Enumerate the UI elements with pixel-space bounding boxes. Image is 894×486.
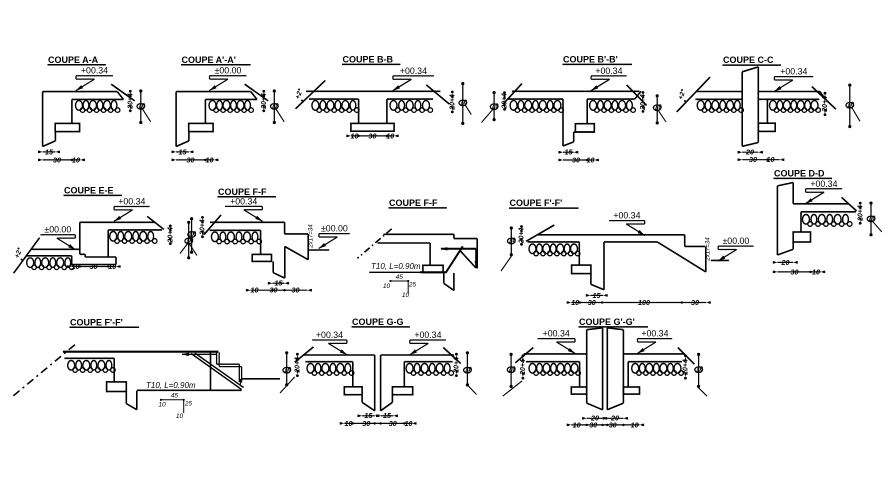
- edge vertical: [210, 352, 212, 389]
- bent bar diagonal double: [191, 354, 242, 390]
- svg-text:±00.00: ±00.00: [321, 224, 348, 234]
- svg-text:20+4: 20+4: [450, 94, 457, 111]
- svg-text:30: 30: [369, 131, 377, 140]
- left dim 20+4: [503, 91, 506, 94]
- dim 40: [849, 85, 851, 127]
- dim 40: [273, 91, 275, 123]
- svg-text:COUPE D-D: COUPE D-D: [774, 169, 825, 179]
- svg-text:30: 30: [187, 155, 195, 164]
- landing line: [711, 259, 729, 261]
- hourdis blocks right: [632, 364, 639, 374]
- wall outer face: [42, 92, 44, 147]
- slab end cut right: [635, 91, 641, 99]
- left dim 40: [510, 354, 512, 386]
- break line right: [147, 216, 164, 229]
- svg-text:10: 10: [383, 283, 391, 290]
- svg-text:10: 10: [571, 298, 579, 307]
- dimension 10 30 10: [351, 135, 394, 137]
- slab bottom right: [628, 361, 682, 363]
- svg-text:+00.34: +00.34: [400, 66, 427, 76]
- svg-text:COUPE B-B: COUPE B-B: [343, 55, 394, 65]
- right beam: [392, 387, 412, 395]
- right dim 40: [466, 353, 468, 385]
- svg-text:10: 10: [108, 262, 116, 271]
- slab top right: [758, 91, 820, 93]
- wall bottom cut: [176, 141, 189, 147]
- break line right: [678, 348, 695, 365]
- stem left face: [125, 392, 127, 404]
- svg-text:±00.00: ±00.00: [722, 236, 749, 246]
- svg-text:30: 30: [609, 420, 617, 429]
- right stem: [391, 395, 393, 403]
- svg-text:+00.34: +00.34: [595, 66, 622, 76]
- svg-text:10: 10: [405, 419, 413, 428]
- slab bottom right: [758, 98, 819, 100]
- slab bottom left: [508, 98, 563, 100]
- slab bottom line: [378, 242, 431, 244]
- slab top line: [512, 90, 639, 92]
- svg-text:20: 20: [781, 258, 790, 267]
- svg-text:+00.34: +00.34: [414, 330, 441, 340]
- slab top left: [524, 353, 587, 355]
- svg-text:10: 10: [176, 413, 184, 420]
- svg-text:30: 30: [362, 419, 370, 428]
- svg-text:30: 30: [270, 286, 278, 295]
- step ledge: [285, 233, 309, 235]
- landing line: [308, 249, 329, 251]
- wall right face: [757, 67, 759, 143]
- svg-text:T10, L=0.90m: T10, L=0.90m: [371, 262, 421, 271]
- break line left: [204, 215, 221, 234]
- hourdis blocks: [68, 361, 75, 371]
- slab top line: [306, 90, 440, 92]
- svg-text:20+4: 20+4: [857, 205, 864, 222]
- svg-text:20+4: 20+4: [519, 227, 526, 244]
- svg-text:+00.34: +00.34: [118, 197, 145, 207]
- dim 20+4: [169, 225, 172, 228]
- dimension 15: [43, 151, 56, 153]
- hourdis blocks: [803, 215, 810, 225]
- slab top left: [697, 91, 742, 93]
- hourdis blocks right: [390, 101, 397, 111]
- svg-text:COUPE G'-G': COUPE G'-G': [579, 317, 635, 327]
- slab top left: [303, 354, 375, 356]
- dimension 15 left: [362, 415, 375, 417]
- slab top right: [381, 354, 454, 356]
- svg-text:45: 45: [171, 393, 179, 400]
- dimension 20: [742, 151, 758, 153]
- right dim 40: [698, 354, 700, 386]
- joist support line: [260, 230, 262, 254]
- slab bottom right: [387, 98, 433, 100]
- svg-text:10: 10: [72, 262, 80, 271]
- svg-text:20+4: 20+4: [454, 357, 461, 374]
- slab edge: [284, 222, 286, 234]
- break line left: [14, 238, 40, 274]
- left dim 20+4: [520, 225, 523, 228]
- right wall: [606, 328, 608, 410]
- dim 20+4: [859, 202, 862, 205]
- slab top line: [383, 233, 454, 235]
- step ledge: [80, 253, 85, 255]
- svg-text:10: 10: [351, 131, 359, 140]
- break line: [245, 84, 269, 101]
- svg-text:30: 30: [691, 298, 699, 307]
- slab top line thick: [63, 351, 219, 353]
- svg-text:10: 10: [402, 292, 410, 299]
- svg-text:20+4: 20+4: [200, 219, 207, 236]
- bar step horizontals: [217, 363, 240, 365]
- wall bottom cut: [742, 143, 758, 147]
- hourdis blocks right: [770, 101, 777, 111]
- dimension 30 10: [563, 159, 594, 161]
- dimension 10 30 10: [72, 266, 116, 268]
- hourdis blocks left: [529, 364, 536, 374]
- beam: [758, 123, 775, 131]
- svg-text:+00.34: +00.34: [810, 179, 837, 189]
- bar down arrow: [239, 379, 242, 386]
- dimension 10 30 30 10: [571, 424, 639, 426]
- step riser: [307, 234, 309, 260]
- stem bottom cut: [563, 142, 574, 146]
- joist support line: [113, 358, 115, 382]
- slab bottom left: [526, 361, 580, 363]
- stem left face: [443, 273, 445, 284]
- svg-text:30: 30: [572, 155, 580, 164]
- svg-text:20+4: 20+4: [640, 94, 647, 111]
- svg-text:20+4: 20+4: [261, 93, 268, 110]
- dimension 20 right: [607, 417, 623, 419]
- upper joist support line: [107, 230, 109, 257]
- right dim 20+4: [642, 91, 645, 94]
- svg-text:COUPE A-A: COUPE A-A: [48, 55, 99, 65]
- svg-text:COUPE G-G: COUPE G-G: [352, 317, 404, 327]
- svg-text:25: 25: [184, 401, 192, 408]
- break line right: [426, 85, 449, 104]
- break line left: [526, 225, 554, 241]
- hourdis blocks: [529, 244, 536, 254]
- beam: [423, 265, 443, 272]
- svg-text:10: 10: [631, 420, 639, 429]
- stem right face: [453, 273, 455, 291]
- joist support line: [800, 212, 802, 232]
- footing: [351, 123, 394, 131]
- slab top line: [176, 91, 251, 93]
- svg-text:±00.00: ±00.00: [215, 66, 242, 76]
- rebar T10 bent bar: [420, 246, 463, 272]
- lower level line: [369, 271, 446, 273]
- left dim 40: [510, 228, 512, 255]
- dimension 10 30 30: [251, 289, 308, 291]
- svg-text:10: 10: [812, 267, 820, 276]
- dimension 15: [176, 151, 189, 153]
- dimension 20: [777, 261, 793, 263]
- slab bottom line: [801, 211, 856, 213]
- ledge right: [685, 245, 705, 247]
- bar step verticals: [216, 352, 218, 364]
- lower hourdis blocks: [27, 258, 34, 268]
- svg-text:45: 45: [396, 274, 404, 281]
- beam: [572, 265, 591, 274]
- right edge: [476, 239, 478, 269]
- left dim 40: [286, 353, 288, 385]
- hourdis blocks left: [697, 101, 704, 111]
- left stem: [361, 395, 363, 403]
- break line left: [677, 77, 710, 112]
- svg-text:10: 10: [587, 155, 595, 164]
- wall inner face: [188, 132, 190, 141]
- svg-text:20+4: 20+4: [520, 359, 527, 376]
- dimension 30 10: [742, 159, 780, 161]
- beam: [71, 256, 73, 265]
- dim 20+4: [451, 91, 454, 94]
- left beam: [344, 387, 362, 395]
- dimension 15: [272, 282, 284, 284]
- hourdis blocks left: [312, 101, 319, 111]
- break line right: [443, 348, 460, 364]
- dim 40: [191, 219, 193, 253]
- right dim 20+4: [684, 354, 687, 357]
- dim 40: [462, 84, 464, 124]
- hourdis blocks right: [590, 101, 597, 111]
- break line right: [812, 87, 836, 110]
- left joist support: [579, 362, 581, 387]
- slab edge right: [684, 235, 686, 247]
- slab top line: [538, 234, 685, 236]
- dimension 15: [590, 294, 603, 296]
- svg-text:10: 10: [206, 155, 214, 164]
- svg-text:COUPE F-F: COUPE F-F: [218, 187, 267, 197]
- break line left: [296, 80, 326, 108]
- dimension 10 30 30 10: [344, 422, 412, 424]
- slab bottom left: [309, 98, 359, 100]
- slab edge: [453, 234, 455, 238]
- slab bottom line: [210, 229, 261, 231]
- dim 40: [140, 91, 142, 123]
- wall top cut: [777, 183, 793, 186]
- slab top line: [210, 221, 285, 223]
- lower level line: [137, 389, 242, 391]
- svg-text:30: 30: [588, 298, 596, 307]
- svg-text:COUPE B'-B': COUPE B'-B': [563, 55, 618, 65]
- svg-text:T10, L=0.90m: T10, L=0.90m: [146, 381, 196, 390]
- step face: [79, 222, 81, 254]
- stem left face: [562, 99, 564, 146]
- dim 20+4: [129, 90, 132, 93]
- svg-text:10: 10: [767, 155, 775, 164]
- slab bottom right: [604, 241, 657, 243]
- break line right: [842, 197, 857, 211]
- break line right: [627, 85, 647, 106]
- svg-text:2x17=34: 2x17=34: [309, 224, 315, 249]
- wall bottom cut: [777, 249, 793, 255]
- svg-text:10: 10: [345, 419, 353, 428]
- beam: [55, 123, 79, 131]
- slab bottom right: [587, 98, 635, 100]
- break line dashed: [13, 345, 75, 396]
- stem left face: [272, 261, 274, 272]
- break line dashed: [357, 229, 391, 258]
- wall inner face upper: [792, 183, 794, 204]
- ledge: [454, 238, 477, 240]
- wall outer face: [175, 92, 177, 147]
- wall inner face: [54, 132, 56, 141]
- joist support line: [586, 99, 588, 124]
- svg-text:COUPE A'-A': COUPE A'-A': [182, 55, 236, 65]
- beam stem left face: [358, 99, 360, 123]
- svg-text:+00.34: +00.34: [780, 67, 807, 77]
- hourdis blocks: [209, 101, 216, 111]
- svg-text:+00.34: +00.34: [230, 196, 257, 206]
- dimension 30 10: [777, 271, 820, 273]
- wall left face: [741, 72, 743, 147]
- ramp face: [705, 246, 707, 272]
- ramp soffit: [657, 242, 706, 272]
- landing line: [242, 378, 280, 380]
- wall bottom cut: [43, 141, 56, 147]
- dim 40: [870, 203, 872, 235]
- bar step right verticals: [238, 364, 240, 382]
- svg-text:COUPE F'-F': COUPE F'-F': [510, 198, 563, 208]
- beam: [252, 254, 271, 261]
- upper slab bottom: [108, 229, 162, 231]
- slab top line: [793, 203, 849, 205]
- slab top right: [623, 353, 684, 355]
- svg-text:+00.34: +00.34: [543, 329, 570, 339]
- svg-text:COUPE F'-F': COUPE F'-F': [70, 317, 123, 327]
- hourdis blocks left: [510, 101, 517, 111]
- svg-text:25: 25: [408, 282, 416, 289]
- stem right face: [284, 247, 286, 279]
- hourdis blocks right: [406, 364, 413, 374]
- svg-text:+00.34: +00.34: [81, 66, 108, 76]
- dimension 10 30 100 30: [571, 302, 706, 304]
- beam: [575, 124, 594, 132]
- slab bottom right: [404, 361, 452, 363]
- beam: [793, 232, 810, 242]
- stem right face: [136, 391, 138, 410]
- dimension 30 10: [176, 159, 214, 161]
- slab top line: [43, 91, 118, 93]
- slab bottom left: [305, 361, 352, 363]
- beam stem right face: [386, 99, 388, 123]
- wall inner face lower: [792, 242, 794, 249]
- dimension 15 right: [381, 415, 394, 417]
- svg-text:30: 30: [749, 155, 757, 164]
- right joist support: [627, 362, 629, 387]
- dim 20+4: [201, 216, 204, 219]
- svg-text:10: 10: [158, 402, 166, 409]
- stem bottom cut: [126, 404, 137, 410]
- svg-text:2x17=34: 2x17=34: [706, 237, 712, 262]
- right joist support: [403, 362, 405, 387]
- right dim 40: [656, 96, 658, 123]
- slab bottom line: [72, 98, 124, 100]
- svg-text:20+4: 20+4: [168, 227, 175, 244]
- joist support line: [429, 243, 431, 265]
- bent bar anchor leg: [182, 353, 217, 355]
- slab bottom left: [528, 241, 580, 243]
- hourdis blocks left: [307, 364, 314, 374]
- svg-text:+00.34: +00.34: [316, 330, 343, 340]
- slab end cut: [251, 92, 257, 100]
- svg-text:COUPE F-F: COUPE F-F: [389, 198, 438, 208]
- stem bottom cut: [591, 284, 604, 289]
- lower slab bottom: [27, 255, 72, 257]
- wall outer face: [776, 186, 778, 255]
- upper slab top: [80, 221, 155, 223]
- svg-text:COUPE E-E: COUPE E-E: [64, 186, 114, 196]
- lower slab top: [31, 248, 80, 250]
- wall top cut: [742, 67, 758, 72]
- svg-text:+00.34: +00.34: [613, 211, 640, 221]
- joist support line: [71, 99, 73, 123]
- svg-text:100: 100: [638, 298, 650, 307]
- dimension 20 left: [587, 417, 603, 419]
- svg-text:20+4: 20+4: [822, 96, 829, 113]
- slab bottom line: [205, 98, 257, 100]
- break line: [111, 84, 135, 101]
- svg-text:30: 30: [791, 267, 799, 276]
- svg-text:30: 30: [292, 286, 300, 295]
- stem left face: [590, 274, 592, 285]
- svg-text:20+4: 20+4: [128, 93, 135, 110]
- stem right face: [603, 242, 605, 290]
- svg-text:±00.00: ±00.00: [44, 225, 71, 235]
- dim 20+4: [262, 90, 265, 93]
- joist support line: [578, 242, 580, 265]
- left joist support: [352, 362, 354, 387]
- right dim 20+4: [455, 353, 458, 356]
- joist support line: [204, 99, 206, 123]
- slab soffit: [64, 357, 114, 359]
- break line left: [515, 348, 533, 363]
- beam: [189, 123, 213, 131]
- break line left: [295, 347, 314, 362]
- upper hourdis blocks: [110, 232, 117, 242]
- svg-text:30: 30: [589, 420, 597, 429]
- left dim 40: [493, 93, 495, 120]
- dimension 15: [563, 151, 574, 153]
- slab end cut: [117, 92, 123, 100]
- rebar diagonal: [460, 250, 476, 268]
- slab bottom left: [695, 98, 742, 100]
- dim 40: [188, 222, 190, 257]
- slab end cut right: [820, 92, 826, 100]
- svg-text:COUPE C-C: COUPE C-C: [723, 55, 774, 65]
- hourdis blocks: [76, 101, 83, 111]
- stem inner face: [573, 132, 575, 142]
- svg-text:20+4: 20+4: [295, 357, 302, 374]
- left beam: [571, 387, 586, 394]
- dimension 30 10: [43, 159, 81, 161]
- svg-text:10: 10: [72, 155, 80, 164]
- beam: [107, 382, 127, 392]
- stem bottom cut: [444, 283, 454, 290]
- svg-text:20+4: 20+4: [683, 359, 690, 376]
- hourdis blocks: [211, 232, 218, 242]
- svg-text:10: 10: [573, 420, 581, 429]
- dim 20+4: [824, 92, 827, 95]
- break line left: [503, 84, 522, 105]
- left dim 20+4: [296, 353, 299, 356]
- svg-text:+00.34: +00.34: [641, 329, 668, 339]
- left dim 20+4: [522, 354, 525, 357]
- svg-text:30: 30: [53, 155, 61, 164]
- stem bottom cut: [273, 273, 285, 278]
- joist support line: [766, 99, 768, 123]
- svg-text:10: 10: [251, 286, 259, 295]
